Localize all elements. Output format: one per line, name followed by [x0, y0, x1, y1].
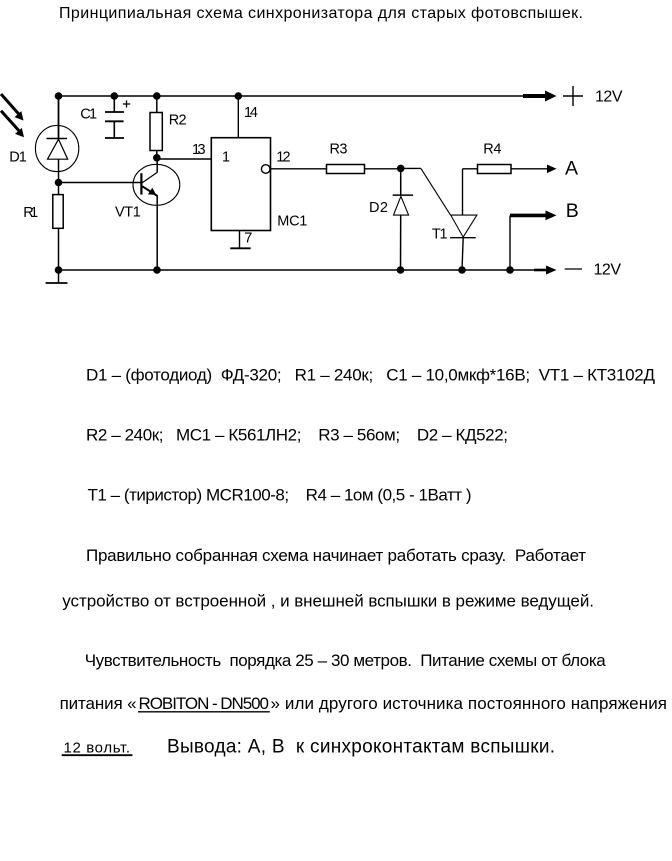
- thyristor T1: [450, 215, 477, 270]
- +12V supply arrow: [523, 91, 557, 102]
- svg-text:7: 7: [244, 231, 252, 247]
- svg-text:R3: R3: [330, 142, 348, 158]
- svg-text:D2: D2: [369, 200, 388, 216]
- wire R2 top lead: [156, 96, 158, 113]
- svg-text:Т1 – (тиристор) MCR100-8; R: Т1 – (тиристор) MCR100-8; R4 – 1ом (0,5 …: [88, 485, 472, 504]
- transistor VT1: [133, 158, 180, 270]
- diode D2: [393, 168, 413, 270]
- node top-left corner: [55, 92, 63, 100]
- svg-text:Принципиальная схема синхрониз: Принципиальная схема синхронизатора для …: [59, 5, 583, 22]
- svg-text:13: 13: [192, 142, 206, 158]
- underline ROBITON: [138, 711, 270, 713]
- wire R3 to node: [365, 168, 401, 170]
- node T1 bottom: [458, 266, 466, 274]
- svg-text:12: 12: [276, 150, 290, 166]
- node R2 top: [153, 92, 161, 100]
- light arrow 2: [1, 111, 24, 138]
- svg-text:R2 – 240к; МС1 – К561ЛН2;: R2 – 240к; МС1 – К561ЛН2; R3 – 56ом; D2 …: [86, 426, 508, 445]
- wire top rail: [59, 95, 524, 97]
- underline 12 volt: [62, 754, 133, 756]
- wire pin13: [157, 158, 212, 160]
- C1 polarity plus: [123, 100, 130, 107]
- svg-text:R1: R1: [23, 205, 38, 221]
- svg-text:12V: 12V: [595, 88, 623, 105]
- node D1-R1-base junction: [55, 179, 63, 187]
- node B bottom: [506, 266, 514, 274]
- svg-text:D1: D1: [9, 150, 27, 166]
- svg-text:ROBITON - DN500: ROBITON - DN500: [139, 694, 270, 713]
- svg-text:T1: T1: [432, 226, 448, 242]
- wire pin7: [239, 231, 241, 249]
- svg-text:» или другого источника постоя: » или другого источника постоянного напр…: [271, 694, 668, 713]
- node bottom-left corner: [55, 266, 63, 274]
- svg-text:R4: R4: [483, 141, 501, 157]
- wire D1 top lead: [58, 96, 60, 139]
- wire pin14: [237, 96, 239, 138]
- resistor R1: [53, 195, 63, 229]
- wire R2 bottom lead: [156, 151, 158, 160]
- minus dash: [565, 268, 582, 270]
- svg-text:12 вольт.: 12 вольт.: [64, 740, 131, 757]
- wire VT1 base: [59, 182, 142, 184]
- node R2-collector-pin13 junction: [153, 154, 161, 162]
- svg-text:VT1: VT1: [115, 205, 141, 221]
- light arrow 1: [1, 94, 24, 121]
- resistor R3: [327, 165, 365, 174]
- svg-text:MC1: MC1: [277, 213, 307, 229]
- node R3-D2-gate junction: [397, 165, 405, 173]
- svg-text:C1: C1: [80, 107, 97, 123]
- svg-text:устройство от встроенной , и в: устройство от встроенной , и внешней всп…: [62, 592, 594, 611]
- svg-text:В: В: [566, 200, 579, 222]
- wire B branch down: [509, 215, 511, 270]
- svg-text:12V: 12V: [594, 261, 622, 278]
- svg-text:1: 1: [222, 150, 230, 166]
- wire output B arrow: [510, 211, 557, 221]
- resistor R4: [478, 165, 512, 174]
- wire D1 bottom lead: [58, 159, 60, 195]
- wire pin12 to R3: [271, 168, 327, 170]
- plus symbol: [563, 86, 583, 106]
- wire T1 anode lead: [463, 169, 478, 215]
- ground left: [46, 270, 68, 283]
- resistor R2: [150, 113, 162, 151]
- capacitor C1: [105, 96, 124, 138]
- node D2 bottom: [397, 266, 405, 274]
- svg-text:D1 – (фотодиод) ФД-320; R1: D1 – (фотодиод) ФД-320; R1 – 240к; C1 – …: [86, 365, 655, 384]
- wire R1 bottom lead: [58, 228, 60, 270]
- svg-text:14: 14: [244, 105, 258, 121]
- node pin14 top: [235, 92, 243, 100]
- IC MC1 box: [211, 138, 270, 231]
- svg-text:Чувствительность порядка 25 –: Чувствительность порядка 25 – 30 метров.…: [85, 651, 607, 670]
- wire bottom rail: [59, 269, 535, 271]
- svg-text:питания «: питания «: [60, 694, 137, 713]
- photodiode D1: [35, 125, 78, 171]
- wire T1 gate: [401, 168, 451, 215]
- svg-text:А: А: [565, 158, 578, 180]
- svg-text:Правильно собранная схема начи: Правильно собранная схема начинает работ…: [86, 546, 586, 565]
- svg-text:Вывода: А, В к синхроконтакта: Вывода: А, В к синхроконтактам вспышки.: [167, 736, 555, 757]
- pin12 bubble: [261, 165, 270, 174]
- ground pin7: [230, 247, 250, 249]
- -12V rail arrow: [534, 266, 557, 275]
- node VT1 emitter bottom: [153, 266, 161, 274]
- wire output A arrow: [511, 165, 557, 174]
- svg-text:R2: R2: [169, 112, 187, 128]
- node C1 top: [111, 92, 119, 100]
